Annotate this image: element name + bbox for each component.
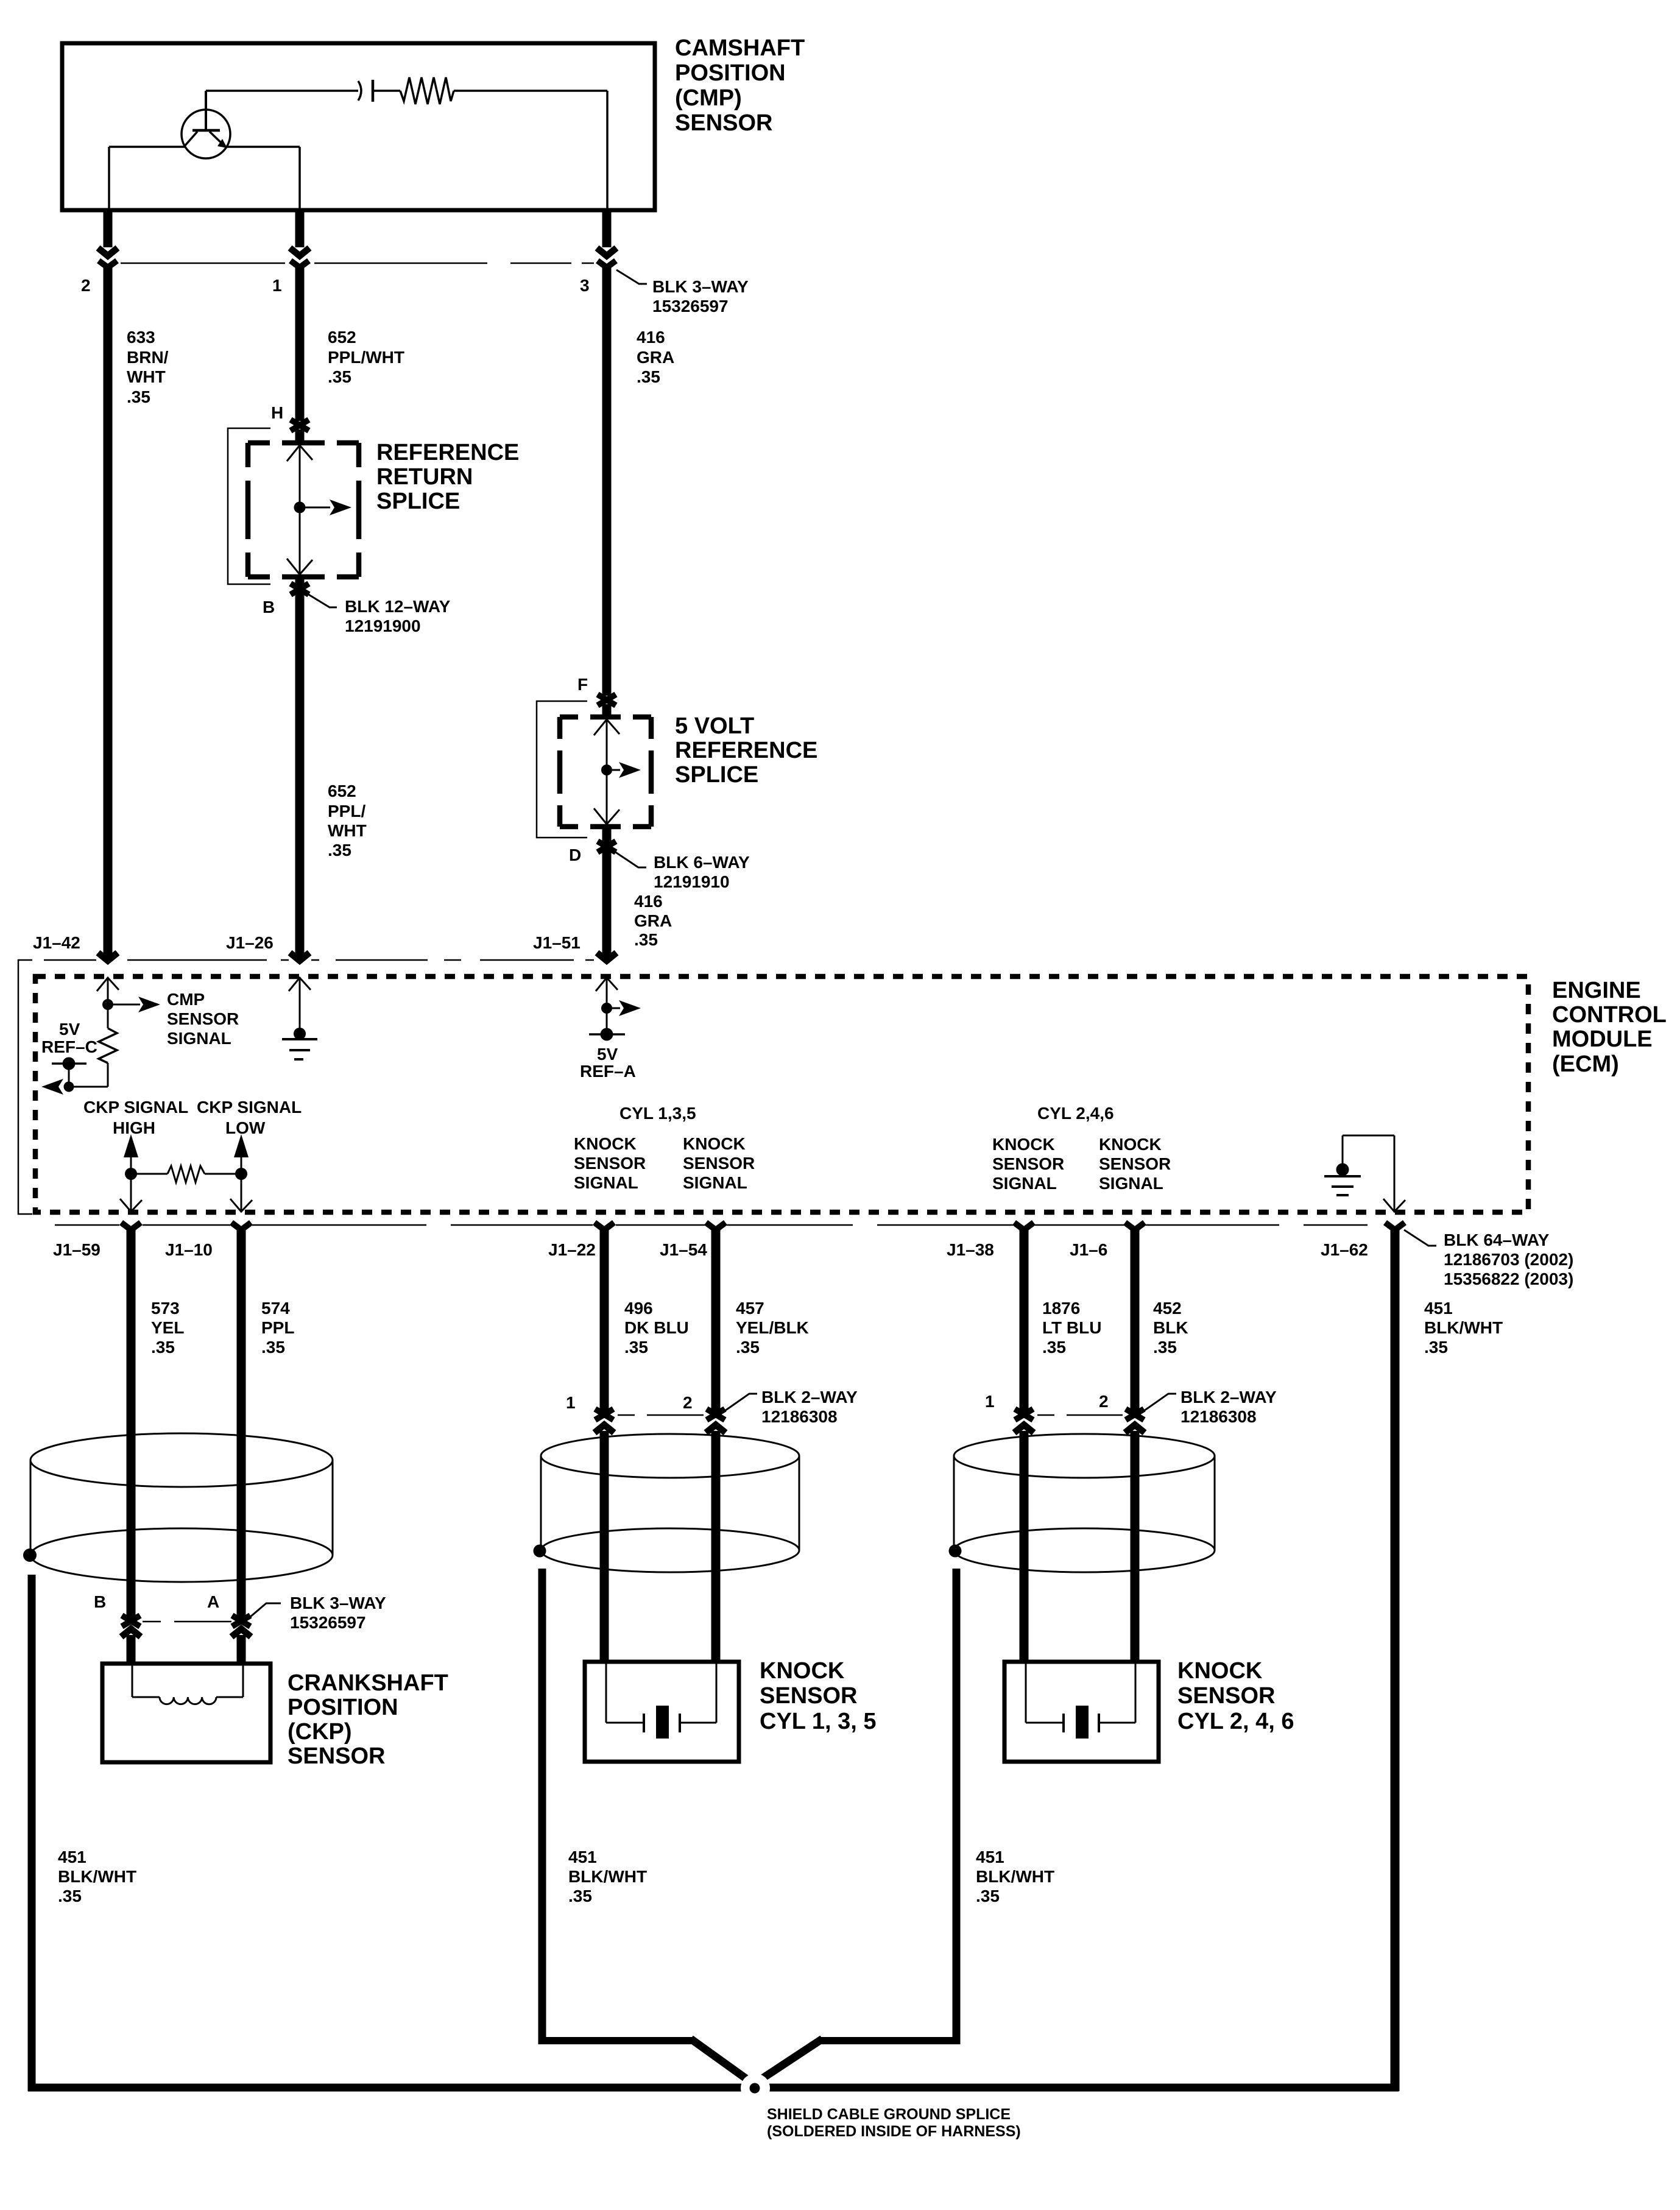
svg-text:REFERENCE: REFERENCE bbox=[376, 440, 519, 465]
svg-text:HIGH: HIGH bbox=[113, 1118, 155, 1137]
svg-text:J1–26: J1–26 bbox=[226, 933, 274, 952]
svg-text:J1–22: J1–22 bbox=[548, 1240, 596, 1259]
svg-text:CONTROL: CONTROL bbox=[1552, 1002, 1667, 1028]
svg-text:SIGNAL: SIGNAL bbox=[1099, 1174, 1163, 1193]
svg-text:.35: .35 bbox=[261, 1338, 285, 1357]
svg-text:KNOCK: KNOCK bbox=[1099, 1135, 1162, 1154]
svg-text:DK BLU: DK BLU bbox=[624, 1318, 689, 1337]
svg-text:SENSOR: SENSOR bbox=[683, 1154, 755, 1173]
svg-text:WHT: WHT bbox=[127, 367, 166, 386]
svg-text:12191910: 12191910 bbox=[654, 872, 730, 891]
svg-text:H: H bbox=[271, 403, 283, 422]
svg-text:574: 574 bbox=[261, 1299, 290, 1318]
svg-text:SIGNAL: SIGNAL bbox=[992, 1174, 1057, 1193]
svg-text:GRA: GRA bbox=[634, 911, 672, 930]
svg-text:PPL/: PPL/ bbox=[328, 802, 365, 821]
svg-text:KNOCK: KNOCK bbox=[574, 1134, 637, 1153]
svg-text:GRA: GRA bbox=[637, 348, 674, 367]
svg-text:2: 2 bbox=[1099, 1392, 1109, 1411]
svg-text:KNOCK: KNOCK bbox=[683, 1134, 746, 1153]
svg-text:573: 573 bbox=[151, 1299, 180, 1318]
svg-text:BLK: BLK bbox=[1153, 1318, 1188, 1337]
svg-text:REF–C: REF–C bbox=[41, 1037, 97, 1056]
svg-text:.35: .35 bbox=[637, 367, 660, 386]
svg-text:REFERENCE: REFERENCE bbox=[675, 738, 817, 763]
svg-text:.35: .35 bbox=[976, 1887, 1000, 1905]
svg-text:633: 633 bbox=[127, 328, 155, 347]
svg-text:12191900: 12191900 bbox=[345, 616, 421, 635]
svg-text:BLK 2–WAY: BLK 2–WAY bbox=[1181, 1388, 1277, 1407]
svg-text:BLK/WHT: BLK/WHT bbox=[58, 1867, 136, 1886]
svg-text:(SOLDERED INSIDE OF HARNESS): (SOLDERED INSIDE OF HARNESS) bbox=[767, 2123, 1021, 2140]
svg-text:(ECM): (ECM) bbox=[1552, 1051, 1619, 1077]
svg-text:SIGNAL: SIGNAL bbox=[167, 1029, 231, 1048]
svg-text:.35: .35 bbox=[328, 841, 351, 860]
svg-text:CYL 1, 3, 5: CYL 1, 3, 5 bbox=[760, 1709, 877, 1734]
svg-text:J1–42: J1–42 bbox=[33, 933, 80, 952]
svg-text:.35: .35 bbox=[634, 930, 658, 949]
svg-text:SENSOR: SENSOR bbox=[1099, 1154, 1171, 1173]
svg-text:451: 451 bbox=[58, 1848, 86, 1866]
svg-text:BRN/: BRN/ bbox=[127, 348, 169, 367]
svg-text:YEL: YEL bbox=[151, 1318, 184, 1337]
svg-text:5 VOLT: 5 VOLT bbox=[675, 713, 754, 739]
svg-text:YEL/BLK: YEL/BLK bbox=[736, 1318, 809, 1337]
svg-text:1: 1 bbox=[566, 1393, 576, 1412]
svg-text:SIGNAL: SIGNAL bbox=[683, 1173, 747, 1192]
svg-text:BLK 6–WAY: BLK 6–WAY bbox=[654, 853, 750, 872]
svg-text:SENSOR: SENSOR bbox=[760, 1683, 857, 1709]
svg-text:.35: .35 bbox=[568, 1887, 592, 1905]
svg-text:B: B bbox=[263, 598, 275, 616]
svg-text:J1–54: J1–54 bbox=[660, 1240, 707, 1259]
svg-text:POSITION: POSITION bbox=[288, 1695, 398, 1720]
svg-text:SPLICE: SPLICE bbox=[376, 489, 460, 514]
svg-text:SENSOR: SENSOR bbox=[992, 1154, 1064, 1173]
svg-text:652: 652 bbox=[328, 782, 356, 800]
svg-text:SENSOR: SENSOR bbox=[1177, 1683, 1275, 1709]
svg-text:2: 2 bbox=[81, 276, 91, 295]
svg-text:CYL 2,4,6: CYL 2,4,6 bbox=[1037, 1104, 1114, 1123]
svg-text:5V: 5V bbox=[597, 1045, 618, 1064]
svg-text:BLK 12–WAY: BLK 12–WAY bbox=[345, 597, 451, 616]
svg-text:ENGINE: ENGINE bbox=[1552, 978, 1641, 1003]
svg-text:1: 1 bbox=[272, 276, 282, 295]
svg-text:CRANKSHAFT: CRANKSHAFT bbox=[288, 1670, 448, 1696]
svg-text:KNOCK: KNOCK bbox=[992, 1135, 1055, 1154]
svg-text:.35: .35 bbox=[58, 1887, 82, 1905]
svg-text:.35: .35 bbox=[1153, 1338, 1177, 1357]
svg-text:(CMP): (CMP) bbox=[675, 85, 742, 111]
svg-text:12186308: 12186308 bbox=[761, 1407, 838, 1426]
svg-text:BLK 2–WAY: BLK 2–WAY bbox=[761, 1388, 858, 1407]
svg-text:.35: .35 bbox=[736, 1338, 760, 1357]
svg-text:CAMSHAFT: CAMSHAFT bbox=[675, 35, 805, 61]
svg-text:J1–51: J1–51 bbox=[533, 933, 581, 952]
svg-text:KNOCK: KNOCK bbox=[1177, 1658, 1263, 1684]
svg-text:LT BLU: LT BLU bbox=[1042, 1318, 1101, 1337]
svg-text:496: 496 bbox=[624, 1299, 653, 1318]
svg-text:SENSOR: SENSOR bbox=[167, 1009, 239, 1028]
svg-text:.35: .35 bbox=[127, 387, 150, 406]
svg-text:POSITION: POSITION bbox=[675, 60, 786, 86]
svg-text:LOW: LOW bbox=[225, 1118, 266, 1137]
svg-text:SPLICE: SPLICE bbox=[675, 762, 758, 788]
svg-text:15326597: 15326597 bbox=[652, 297, 729, 316]
svg-text:SENSOR: SENSOR bbox=[288, 1743, 385, 1769]
svg-text:451: 451 bbox=[976, 1848, 1004, 1866]
svg-text:BLK/WHT: BLK/WHT bbox=[568, 1867, 647, 1886]
svg-text:SENSOR: SENSOR bbox=[574, 1154, 646, 1173]
svg-text:451: 451 bbox=[568, 1848, 597, 1866]
svg-text:BLK 3–WAY: BLK 3–WAY bbox=[290, 1594, 386, 1612]
svg-text:3: 3 bbox=[580, 276, 590, 295]
svg-text:CMP: CMP bbox=[167, 990, 205, 1009]
svg-text:RETURN: RETURN bbox=[376, 464, 473, 490]
svg-text:2: 2 bbox=[683, 1393, 693, 1412]
svg-text:D: D bbox=[569, 846, 581, 864]
svg-text:MODULE: MODULE bbox=[1552, 1026, 1653, 1052]
svg-text:1: 1 bbox=[985, 1392, 995, 1411]
svg-text:A: A bbox=[207, 1592, 219, 1611]
svg-text:15326597: 15326597 bbox=[290, 1613, 366, 1632]
svg-text:15356822 (2003): 15356822 (2003) bbox=[1444, 1269, 1573, 1288]
svg-text:.35: .35 bbox=[1042, 1338, 1066, 1357]
svg-text:12186703 (2002): 12186703 (2002) bbox=[1444, 1250, 1573, 1269]
svg-text:457: 457 bbox=[736, 1299, 764, 1318]
svg-text:SENSOR: SENSOR bbox=[675, 110, 772, 136]
svg-text:SHIELD CABLE GROUND SPLICE: SHIELD CABLE GROUND SPLICE bbox=[767, 2106, 1011, 2123]
svg-text:BLK/WHT: BLK/WHT bbox=[1424, 1318, 1503, 1337]
svg-text:PPL: PPL bbox=[261, 1318, 294, 1337]
svg-text:.35: .35 bbox=[328, 367, 351, 386]
svg-text:BLK 3–WAY: BLK 3–WAY bbox=[652, 277, 749, 296]
svg-text:BLK/WHT: BLK/WHT bbox=[976, 1867, 1054, 1886]
svg-text:F: F bbox=[577, 675, 588, 694]
svg-text:5V: 5V bbox=[59, 1020, 80, 1039]
svg-text:1876: 1876 bbox=[1042, 1299, 1080, 1318]
svg-text:B: B bbox=[94, 1592, 106, 1611]
svg-text:BLK 64–WAY: BLK 64–WAY bbox=[1444, 1230, 1550, 1249]
svg-text:452: 452 bbox=[1153, 1299, 1182, 1318]
svg-text:J1–62: J1–62 bbox=[1321, 1240, 1368, 1259]
svg-text:PPL/WHT: PPL/WHT bbox=[328, 348, 404, 367]
svg-text:CYL 2, 4, 6: CYL 2, 4, 6 bbox=[1177, 1709, 1294, 1734]
svg-text:.35: .35 bbox=[1424, 1338, 1448, 1357]
svg-text:416: 416 bbox=[637, 328, 665, 347]
svg-text:.35: .35 bbox=[151, 1338, 175, 1357]
svg-text:451: 451 bbox=[1424, 1299, 1453, 1318]
svg-text:J1–10: J1–10 bbox=[165, 1240, 213, 1259]
svg-text:CKP SIGNAL: CKP SIGNAL bbox=[197, 1098, 302, 1117]
svg-text:REF–A: REF–A bbox=[580, 1062, 636, 1081]
svg-text:12186308: 12186308 bbox=[1181, 1407, 1257, 1426]
svg-text:.35: .35 bbox=[624, 1338, 648, 1357]
svg-text:KNOCK: KNOCK bbox=[760, 1658, 845, 1684]
svg-text:(CKP): (CKP) bbox=[288, 1719, 352, 1745]
svg-text:CYL 1,3,5: CYL 1,3,5 bbox=[619, 1104, 696, 1123]
svg-text:J1–6: J1–6 bbox=[1070, 1240, 1107, 1259]
svg-text:652: 652 bbox=[328, 328, 356, 347]
svg-text:J1–38: J1–38 bbox=[947, 1240, 994, 1259]
svg-text:416: 416 bbox=[634, 892, 663, 911]
svg-text:WHT: WHT bbox=[328, 821, 367, 840]
svg-text:CKP SIGNAL: CKP SIGNAL bbox=[83, 1098, 188, 1117]
svg-text:SIGNAL: SIGNAL bbox=[574, 1173, 638, 1192]
svg-text:J1–59: J1–59 bbox=[53, 1240, 101, 1259]
